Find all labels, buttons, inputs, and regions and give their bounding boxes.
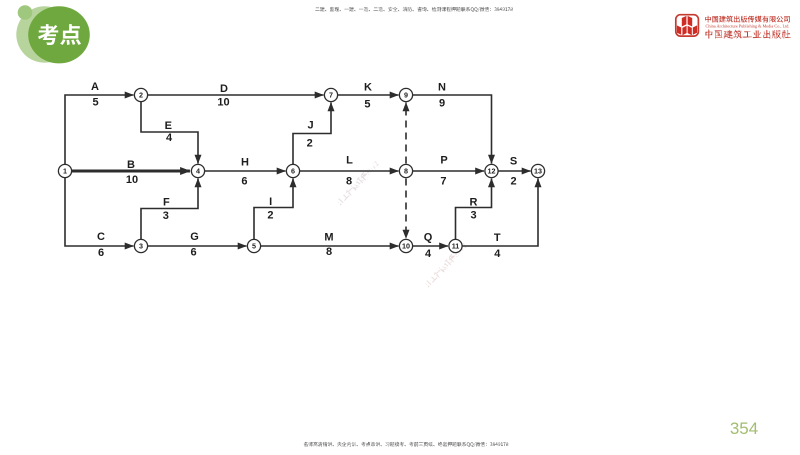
green corner blob (16, 6, 72, 62)
svg-text:7: 7 (329, 91, 333, 100)
node 8 (399, 164, 412, 177)
dummy arrow 8-10 dashed (405, 179, 407, 239)
node 10 (399, 239, 412, 252)
svg-text:5: 5 (364, 99, 370, 111)
svg-text:10: 10 (217, 96, 229, 108)
activity Q (10-11) (406, 245, 448, 247)
activity I (5-6) (254, 179, 293, 247)
activity E (2-4) (141, 95, 198, 164)
kaodian title (38, 24, 81, 45)
svg-text:T: T (494, 232, 501, 244)
activity M (5-10) (254, 245, 399, 247)
node 13 (531, 164, 544, 177)
activity F (3-4) (141, 179, 198, 247)
svg-text:5: 5 (252, 242, 256, 251)
svg-text:4: 4 (196, 167, 200, 176)
activity R (11-12) (456, 179, 492, 247)
svg-text:B: B (127, 159, 135, 171)
footer tiny text (304, 442, 508, 447)
svg-text:4: 4 (494, 248, 501, 260)
svg-text:9: 9 (404, 91, 408, 100)
activity J (6-7) (293, 103, 331, 172)
node 12 (485, 164, 498, 177)
node 6 (286, 164, 299, 177)
svg-text:6: 6 (98, 247, 104, 259)
svg-text:1: 1 (63, 167, 67, 176)
watermark 2 (424, 242, 468, 288)
svg-text:3: 3 (163, 210, 169, 222)
svg-text:I: I (269, 196, 272, 208)
publisher logo mark (676, 15, 699, 36)
svg-text:4: 4 (166, 132, 173, 144)
svg-text:2: 2 (267, 209, 273, 221)
node 11 (449, 239, 462, 252)
node 5 (247, 239, 260, 252)
activity T (11-13) (456, 179, 539, 247)
svg-text:F: F (163, 196, 170, 208)
svg-text:2: 2 (511, 176, 517, 188)
svg-text:8: 8 (326, 246, 332, 258)
activity P (8-12) (406, 170, 484, 172)
svg-text:7: 7 (440, 176, 446, 188)
svg-text:R: R (470, 196, 478, 208)
svg-text:10: 10 (402, 242, 410, 251)
svg-text:3: 3 (139, 242, 143, 251)
svg-text:G: G (190, 231, 199, 243)
activity D (2-7) (141, 94, 324, 96)
svg-text:5: 5 (93, 96, 99, 108)
svg-text:13: 13 (534, 167, 542, 176)
activity L (6-8) (293, 170, 399, 172)
svg-text:8: 8 (346, 176, 352, 188)
svg-text:P: P (440, 154, 447, 166)
node 9 (399, 88, 412, 101)
svg-text:8: 8 (404, 167, 408, 176)
svg-text:10: 10 (126, 174, 138, 186)
activity S (12-13) (492, 170, 531, 172)
svg-text:11: 11 (452, 242, 460, 251)
svg-text:K: K (364, 82, 372, 94)
svg-text:4: 4 (425, 248, 432, 260)
header tiny text (315, 7, 512, 12)
svg-text:H: H (241, 157, 249, 169)
node 2 (134, 88, 147, 101)
publisher name line3 calligraphy (705, 29, 791, 38)
node 4 (191, 164, 204, 177)
svg-text:C: C (97, 231, 105, 243)
svg-text:N: N (438, 82, 446, 94)
svg-text:J: J (307, 120, 313, 132)
activity K (7-9) (331, 94, 399, 96)
svg-text:E: E (165, 120, 172, 132)
activity N (9-12) (406, 95, 492, 164)
watermark 1 (336, 160, 380, 206)
svg-text:D: D (220, 83, 228, 95)
svg-text:M: M (324, 231, 333, 243)
activity C (1-3) (65, 171, 134, 246)
svg-text:9: 9 (439, 97, 445, 109)
node 3 (134, 239, 147, 252)
svg-text:Q: Q (424, 231, 433, 243)
activity B (1-4) bold (65, 170, 190, 173)
svg-text:A: A (91, 81, 99, 93)
node 7 (324, 88, 337, 101)
svg-text:S: S (510, 156, 517, 168)
svg-text:3: 3 (470, 209, 476, 221)
dummy arrow 8-9 dashed (405, 103, 407, 164)
svg-text:2: 2 (307, 137, 313, 149)
activity G (3-5) (141, 245, 247, 247)
svg-text:6: 6 (190, 247, 196, 259)
publisher name line1 (705, 16, 790, 23)
svg-text:12: 12 (488, 167, 496, 176)
activity H (4-6) (198, 170, 286, 172)
svg-text:2: 2 (139, 91, 143, 100)
svg-text:6: 6 (291, 167, 295, 176)
node 1 (58, 164, 71, 177)
activity A (1-2) (65, 95, 134, 171)
svg-text:L: L (346, 154, 353, 166)
svg-text:6: 6 (241, 176, 247, 188)
svg-text:354: 354 (730, 419, 758, 438)
